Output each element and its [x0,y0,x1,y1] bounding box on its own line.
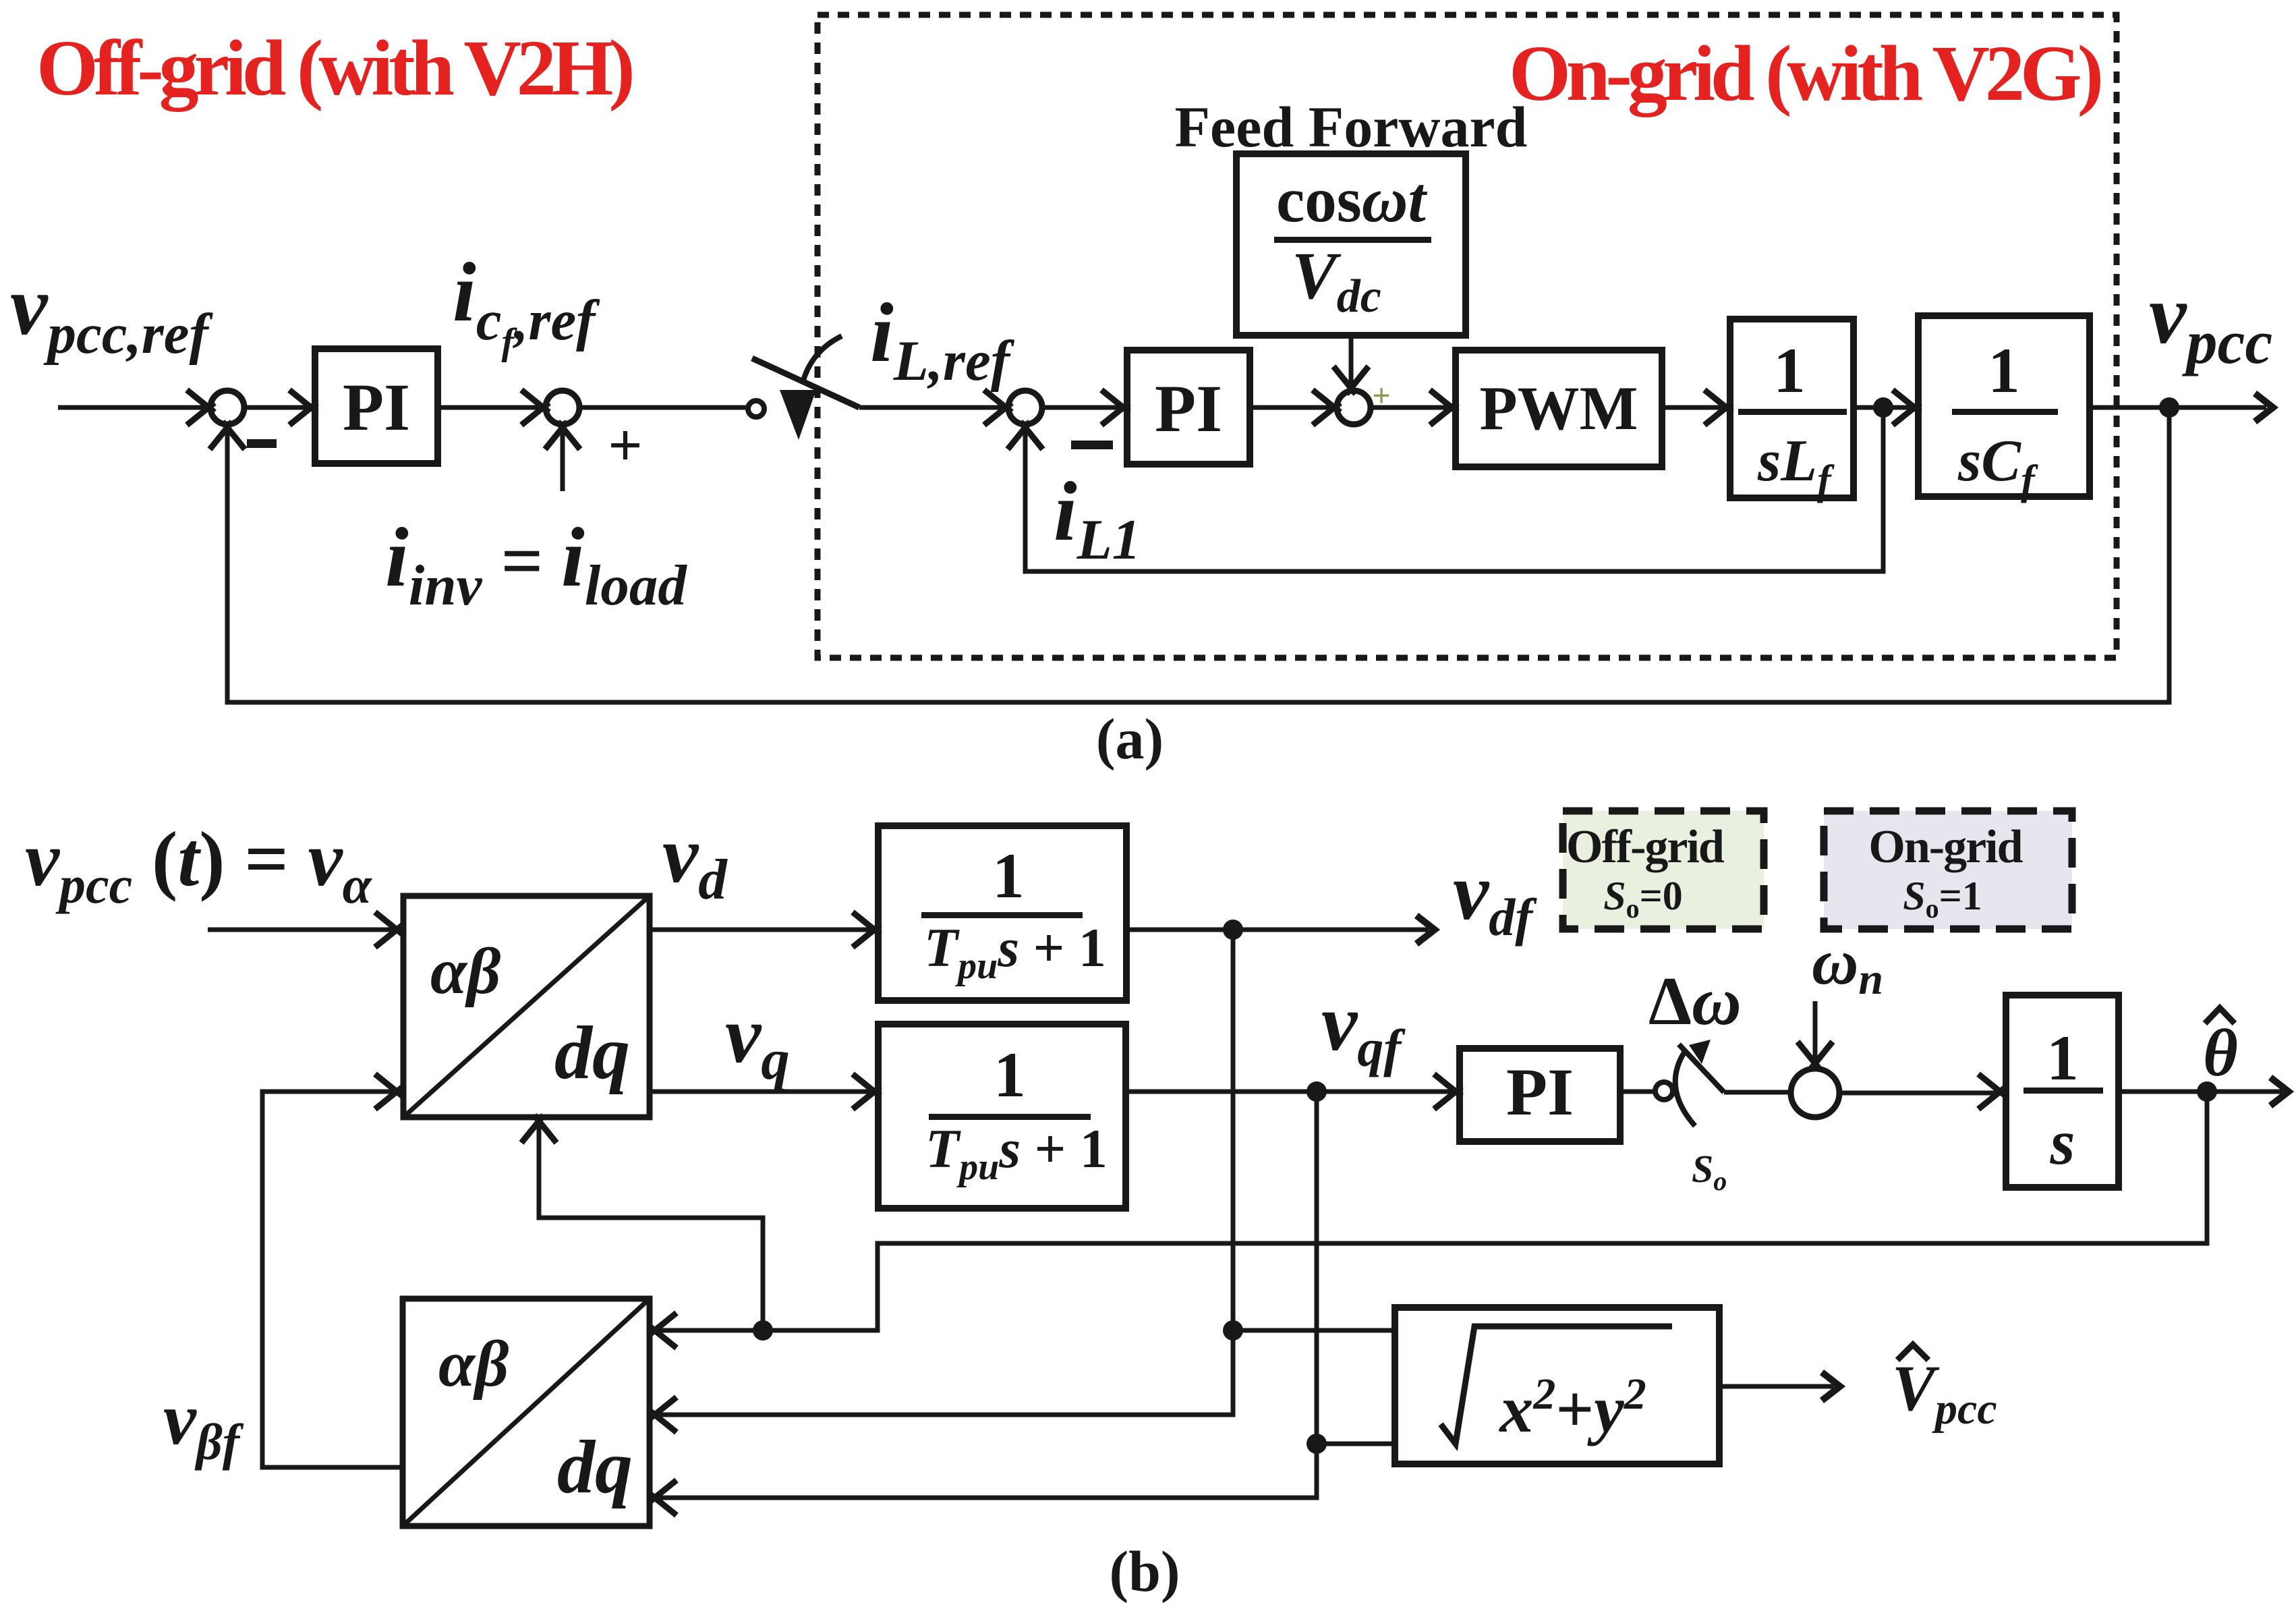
block PI2 [1127,350,1250,464]
svg-text:So: So [1692,1147,1727,1196]
arrow into S3 [984,390,1012,425]
arrow up into S2 [545,422,580,449]
svg-text:1: 1 [1773,335,1806,406]
arrow into 1/s [1978,1074,2006,1109]
svg-text:θ: θ [2203,1015,2238,1090]
summing junction S3 [1008,391,1042,424]
svg-text:Tpus + 1: Tpus + 1 [925,1118,1108,1188]
svg-text:icf,ref: icf,ref [453,246,600,363]
svg-text:αβ: αβ [430,935,500,1008]
hat over theta [2205,1008,2235,1023]
arrow into 1/sLf [1704,390,1732,425]
svg-text:vq: vq [725,990,790,1092]
svg-text:vdf: vdf [1453,847,1537,947]
svg-text:PI: PI [1506,1054,1574,1129]
arrow into AB2 right input2 [649,1397,677,1432]
svg-text:iL1: iL1 [1054,466,1141,571]
arrow into AB2 right input1 [649,1313,677,1348]
arrow into Tpu1 [853,912,880,947]
svg-text:On-grid: On-grid [1868,821,2023,873]
wire PI1 to S2 [438,405,538,410]
output arrowhead v_pcc [2255,393,2273,422]
switch contact circle [748,401,764,417]
arrow up into S3 from i_L1 feedback [1008,422,1043,449]
wire S2 to switch [579,405,747,410]
svg-text:Tpus + 1: Tpus + 1 [924,917,1106,987]
svg-text:x2+y2: x2+y2 [1498,1370,1646,1446]
hat over V_pcc [1897,1345,1928,1360]
arrow into PWM [1430,390,1458,425]
summing junction S5 [1791,1069,1839,1117]
wire v_qf to PI3 [1126,1090,1452,1094]
svg-text:Vpcc: Vpcc [1892,1352,1997,1434]
arrow into Tpu2 [853,1074,880,1109]
switch SW1 blade [752,358,859,407]
svg-text:+: + [608,412,642,479]
svg-text:So=0: So=0 [1603,874,1683,924]
wire input v_alpha [208,928,393,932]
minus sign at S1 [247,439,277,448]
arrow into PI2 [1101,390,1129,425]
svg-text:Off-grid (with V2H): Off-grid (with V2H) [36,24,633,112]
wire 1/s to theta output [2119,1090,2283,1094]
svg-text:1: 1 [2046,1022,2079,1094]
arrow into PI3 [1434,1074,1462,1109]
svg-text:Feed Forward: Feed Forward [1174,94,1527,159]
svg-text:iL,ref: iL,ref [870,287,1015,393]
svg-text:PI: PI [1155,371,1222,446]
svg-text:PI: PI [343,370,410,445]
wire input v_pcc,ref [58,405,204,410]
wire v_df vertical to AB2 input2 [658,930,1233,1415]
wire i_L1 feedback [1025,407,1883,571]
wire switch to S3 [859,405,1002,410]
svg-text:s: s [2050,1106,2075,1178]
wire omega_n into S5 [1813,1001,1818,1059]
wire S1 to PI1 [244,405,307,410]
diagonal of AB1 [403,896,650,1117]
block PWM [1456,350,1662,467]
svg-text:PWM: PWM [1479,374,1638,443]
arrow down into S5 [1798,1042,1833,1069]
summing junction S2 [546,391,579,424]
wire vbf from AB2 up into AB1 [262,1092,403,1467]
node N2 dot at v_pcc [2159,397,2179,418]
block PI3 [1460,1048,1620,1141]
fraction bar in 1/s [2024,1088,2103,1094]
switch SW1 curved arrow [803,336,842,383]
wire v_pcc outer feedback [227,407,2169,702]
svg-text:So=1: So=1 [1903,874,1982,924]
svg-text:dq: dq [554,1011,630,1095]
switch So blade [1679,1044,1724,1092]
arrow into 1/sCf [1893,390,1920,425]
svg-text:(b): (b) [1109,1539,1180,1604]
arrow into summing junction S1 [187,390,214,425]
wire sqrt to V_pcc output [1719,1384,1834,1389]
node dot v_qf to sqrt branch [1307,1434,1327,1454]
wire v_qf vertical to AB2 input3 [658,1092,1317,1498]
block AB2 alphabeta/dq [403,1299,650,1526]
svg-text:vqf: vqf [1321,978,1406,1077]
output arrowhead V_pcc [1822,1372,1840,1401]
svg-text:1: 1 [994,1039,1026,1110]
svg-text:ωn: ωn [1812,926,1883,1004]
node dot v_df to sqrt branch [1223,1320,1243,1341]
switch So contact circle [1655,1082,1673,1100]
node dot on theta wire branch to AB1 [753,1320,773,1341]
wire S3 to PI2 [1042,405,1120,410]
arrow into S2 [521,390,549,425]
arrow up into S1 from outer feedback [210,422,245,449]
svg-text:vβf: vβf [163,1378,244,1471]
wire PWM to 1/sLf [1662,405,1723,410]
arrow into transform block AB1 [375,912,403,947]
radical sign in sqrt block [1441,1326,1672,1444]
svg-text:Off-grid: Off-grid [1566,821,1725,873]
block 1/sLf [1730,319,1854,498]
svg-text:Vdc: Vdc [1292,238,1381,322]
svg-text:1: 1 [1988,335,2020,406]
arrow into AB1 lower-left input [375,1074,403,1109]
arrow into AB2 right input3 [649,1480,677,1515]
fraction bar in 1/sLf [1738,409,1847,415]
dashed region On-grid [817,15,2117,658]
block Tpu2 low-pass [878,1024,1126,1208]
svg-text:1: 1 [992,840,1025,911]
wire i_inv stub into S2 [561,432,565,491]
node N1 dot [1873,397,1893,418]
svg-text:+: + [1372,378,1390,414]
wire 1/sLf to node N1 [1854,405,1912,410]
fraction bar in Tpu2 [929,1114,1091,1120]
fraction bar in Tpu1 [921,912,1083,918]
diagonal of AB2 [403,1299,650,1526]
arrow into S4 [1313,390,1340,425]
node dot v_qf branch [1307,1081,1327,1102]
fraction bar in FF block [1274,237,1431,243]
svg-text:iinv = iload: iinv = iload [385,511,687,617]
wire v_df [1126,928,1429,932]
wire PI2 to S4 [1250,405,1330,410]
wire FF block to S4 [1349,335,1354,385]
legend box Off-grid [1563,811,1764,929]
legend box On-grid [1824,811,2072,929]
arrow into PI1 [289,390,317,425]
block PI1 [315,349,438,463]
wire v_qf branch into sqrt block [1317,1442,1392,1446]
svg-text:(a): (a) [1096,706,1164,771]
wire S5 to 1/s [1839,1091,1996,1096]
svg-text:vd: vd [662,810,728,911]
output arrowhead v_df [1416,915,1435,944]
node dot theta branch [2197,1081,2217,1102]
svg-text:sLf: sLf [1757,428,1835,503]
summing junction S1 [210,391,244,424]
wire switch to S5 [1724,1090,1789,1095]
svg-text:dq: dq [557,1426,633,1509]
svg-text:Δω: Δω [1648,963,1742,1040]
switch So curved arrow [1675,1052,1695,1126]
block 1/sCf [1918,316,2090,497]
switch So arrowhead [1689,1040,1711,1064]
svg-text:sCf: sCf [1957,428,2038,503]
output arrowhead theta [2270,1077,2289,1106]
block Tpu1 low-pass [878,826,1126,1000]
block Feed Forward coswt/Vdc [1236,154,1466,335]
summing junction S4 [1337,391,1371,424]
wire branch up into AB1 bottom [539,1125,763,1330]
fraction bar in 1/sCf [1952,409,2058,415]
wire v_df branch into sqrt block [1233,1328,1392,1333]
wire 1/sCf to output v_pcc [2090,405,2266,410]
arrow down into S4 [1333,366,1369,394]
wire theta feedback to AB2 input1 [658,1092,2207,1330]
minus sign at S3 [1071,441,1113,449]
block sqrt(x2+y2) [1395,1307,1719,1464]
switch SW1 arrowhead triangle [780,390,816,440]
svg-text:cosωt: cosωt [1276,164,1427,235]
svg-text:vpcc: vpcc [2149,269,2272,376]
block AB1 alphabeta/dq [403,896,650,1117]
arrow up into AB1 bottom [521,1115,556,1143]
svg-text:αβ: αβ [438,1328,509,1401]
block 1/s integrator [2006,995,2119,1187]
svg-text:vpcc,ref: vpcc,ref [10,260,213,366]
wire v_d to Tpu1 [650,928,871,932]
node dot v_df branch [1223,920,1243,940]
wire v_q to Tpu2 [650,1090,871,1094]
wire S4 to PWM [1371,405,1449,410]
svg-text:vpcc (t) = vα: vpcc (t) = vα [25,816,373,914]
svg-text:On-grid (with V2G): On-grid (with V2G) [1509,29,2101,117]
wire PI3 to switch So [1620,1090,1653,1094]
